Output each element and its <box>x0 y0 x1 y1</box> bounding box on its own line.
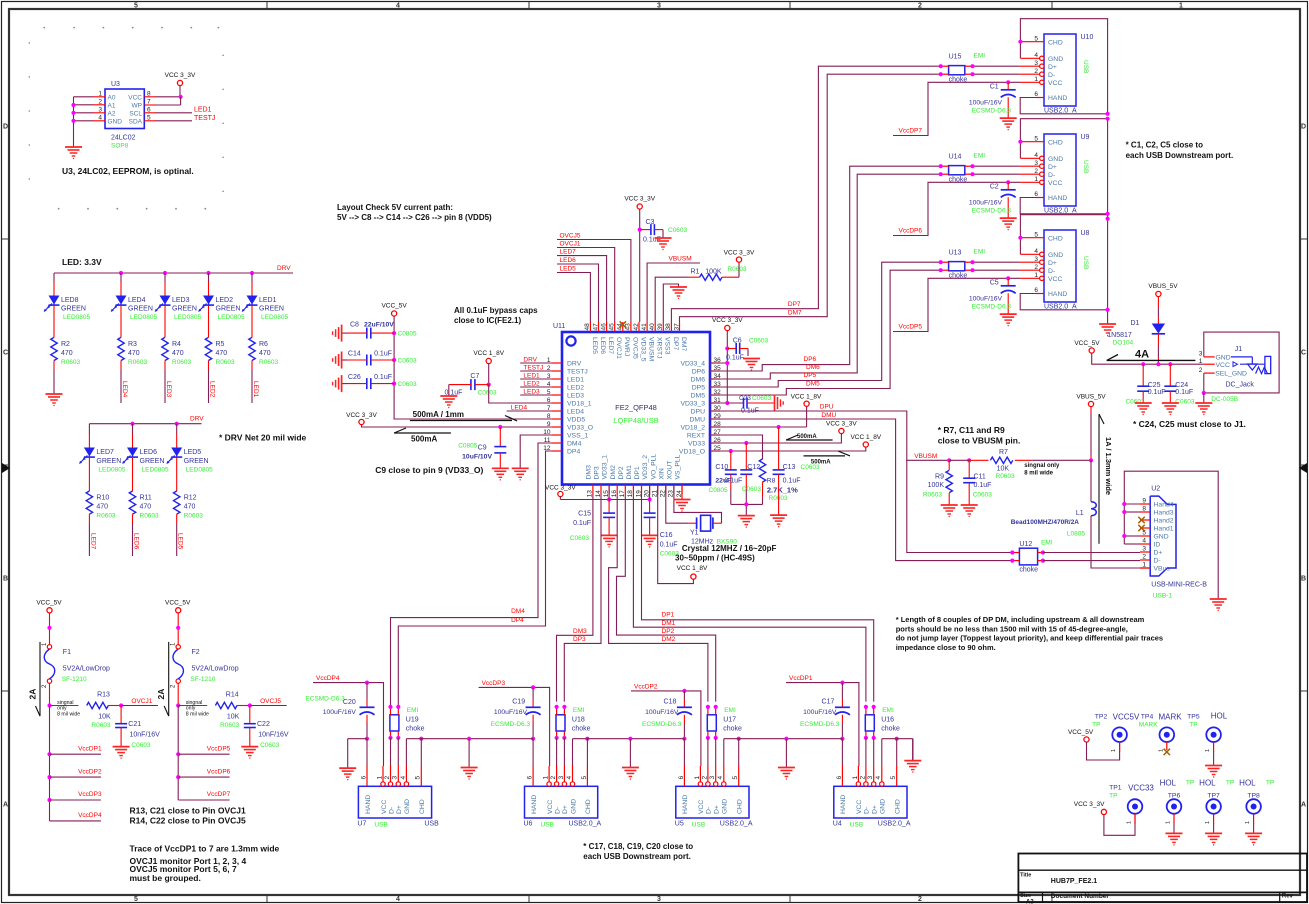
svg-text:ECSMD-D6.3: ECSMD-D6.3 <box>972 208 1012 215</box>
svg-text:C24: C24 <box>1175 382 1188 389</box>
svg-text:C0805: C0805 <box>398 331 418 338</box>
wire pin 40 XRSTJ to R1 <box>655 277 688 322</box>
wire VCC_3_3V to pin 26 VD33 <box>710 434 841 443</box>
wire U6 D-/D+ to port <box>556 738 558 766</box>
svg-text:1: 1 <box>1205 749 1211 752</box>
junction dot bottom rail <box>744 502 748 506</box>
svg-text:HOL: HOL <box>1199 778 1216 787</box>
svg-text:LED6: LED6 <box>133 533 140 550</box>
svg-text:DM2: DM2 <box>610 465 617 480</box>
svg-text:4: 4 <box>717 776 724 780</box>
svg-text:R4: R4 <box>172 341 181 348</box>
svg-text:LED2: LED2 <box>209 381 216 398</box>
wire below R2 <box>53 361 55 371</box>
svg-text:10K: 10K <box>227 714 240 721</box>
wire U12 to U2 D+/D- <box>1043 552 1140 554</box>
svg-text:DM6: DM6 <box>691 377 706 384</box>
svg-text:100uF/16V: 100uF/16V <box>803 709 837 716</box>
wire VccDP rail (U6) <box>479 687 550 766</box>
wire LED to R11 <box>132 457 134 491</box>
wire below R3 <box>120 361 122 371</box>
svg-text:C22: C22 <box>257 721 270 728</box>
svg-text:ECSMD-D6.3: ECSMD-D6.3 <box>642 721 682 728</box>
svg-text:CHD: CHD <box>895 799 902 814</box>
svg-text:WP: WP <box>132 102 142 109</box>
svg-text:U7: U7 <box>357 820 366 827</box>
svg-text:VCC 1_8V: VCC 1_8V <box>473 350 504 357</box>
wire U8 CHD to top rail <box>1020 237 1044 239</box>
svg-text:OVCJ5: OVCJ5 <box>560 233 581 240</box>
svg-text:D-: D- <box>1154 558 1161 565</box>
svg-text:TESTJ: TESTJ <box>567 369 588 376</box>
svg-text:4: 4 <box>566 776 573 780</box>
wire U8 D+ to choke <box>1040 260 1044 264</box>
ground (C16) <box>641 534 658 536</box>
svg-text:100K: 100K <box>705 269 722 276</box>
svg-text:USB: USB <box>692 821 705 828</box>
wire U4 HAND to rail <box>841 739 843 766</box>
svg-text:470: 470 <box>61 350 73 357</box>
wire U9 D+ to choke <box>1040 164 1044 168</box>
svg-text:F2: F2 <box>192 649 200 656</box>
wire DM7 (pin 37 to U15) <box>680 74 941 322</box>
svg-text:U5: U5 <box>675 820 684 827</box>
svg-text:VBUSM: VBUSM <box>648 337 655 362</box>
svg-text:VBUS_5V: VBUS_5V <box>1148 283 1178 290</box>
wire DP7 (pin 38 to U15) <box>671 66 940 322</box>
svg-text:C0603: C0603 <box>478 390 498 397</box>
wire below R10 <box>88 514 90 524</box>
svg-text:VCC 3_3V: VCC 3_3V <box>545 484 576 491</box>
svg-text:R0603: R0603 <box>220 722 240 729</box>
svg-text:C0603: C0603 <box>398 358 418 365</box>
svg-text:10uF/10V: 10uF/10V <box>462 454 492 461</box>
svg-text:HOL: HOL <box>1211 712 1228 721</box>
svg-text:2: 2 <box>918 3 922 10</box>
svg-text:TP2: TP2 <box>1095 714 1108 721</box>
wire VccDP4 stub <box>50 820 101 822</box>
junction dot C20 top <box>365 681 369 685</box>
resistor R13 10K <box>87 702 109 708</box>
svg-text:C16: C16 <box>660 532 673 539</box>
svg-text:LED0805: LED0805 <box>261 314 288 321</box>
svg-text:D+: D+ <box>1048 164 1057 171</box>
wire LED to R5 <box>208 305 210 337</box>
ground (TP6) <box>1166 832 1183 834</box>
svg-text:U3, 24LC02, EEPROM, is optinal: U3, 24LC02, EEPROM, is optinal. <box>62 166 194 176</box>
capacitor C19 100uF/16V <box>532 687 534 699</box>
capacitor C10 22uF <box>730 451 732 470</box>
svg-text:ECSMD-D6.3: ECSMD-D6.3 <box>972 304 1012 311</box>
svg-text:470: 470 <box>96 504 108 511</box>
svg-text:1A / 1.3mm wide: 1A / 1.3mm wide <box>1104 437 1113 495</box>
svg-text:GREEN: GREEN <box>172 306 197 313</box>
svg-text:* C24, C25 must close to J1.: * C24, C25 must close to J1. <box>1133 419 1246 429</box>
svg-text:Hand4: Hand4 <box>1154 502 1174 509</box>
svg-text:U8: U8 <box>1081 230 1090 237</box>
svg-text:VBUSM: VBUSM <box>669 256 692 263</box>
svg-text:C13: C13 <box>783 464 796 471</box>
ground (U2) <box>1210 598 1227 600</box>
junction dot C17 bottom / HAND <box>840 737 844 741</box>
svg-text:VCC 3_3V: VCC 3_3V <box>1074 801 1105 808</box>
svg-text:DM3: DM3 <box>586 465 593 480</box>
svg-text:4: 4 <box>1142 538 1146 545</box>
svg-text:C25: C25 <box>1148 382 1161 389</box>
resistor R12 470 <box>174 491 180 514</box>
svg-text:LED7: LED7 <box>96 449 114 456</box>
svg-text:LED7: LED7 <box>607 337 614 354</box>
svg-text:L1: L1 <box>1076 510 1084 517</box>
svg-text:D-: D- <box>554 807 561 814</box>
wire VCC_3_3V to TP1 <box>1104 814 1135 835</box>
svg-text:R7: R7 <box>999 449 1008 456</box>
svg-text:impedance close to 90 ohm.: impedance close to 90 ohm. <box>896 643 996 652</box>
svg-text:CHD: CHD <box>1048 139 1063 146</box>
capacitor C7 0.1uF <box>470 379 472 390</box>
svg-text:R0603: R0603 <box>96 513 116 520</box>
capacitor C18 100uF/16V <box>683 691 685 699</box>
IC U11 FE2_QFP48 <box>562 332 710 485</box>
svg-text:HOL: HOL <box>1160 778 1177 787</box>
svg-text:D+: D+ <box>1154 550 1163 557</box>
svg-text:100uF/16V: 100uF/16V <box>645 709 679 716</box>
wire below R6 <box>251 361 253 371</box>
ground (C24) <box>1162 402 1179 404</box>
junction dots C15/C16 rail <box>607 497 611 501</box>
svg-text:LED6: LED6 <box>140 449 158 456</box>
svg-text:R1: R1 <box>691 269 700 276</box>
resistor R14 10K <box>215 702 237 708</box>
wire U8 GND pin <box>1040 252 1044 256</box>
svg-text:VCC 3_3V: VCC 3_3V <box>826 420 857 427</box>
svg-text:FE2_QFP48: FE2_QFP48 <box>615 403 657 412</box>
svg-text:A1: A1 <box>108 102 116 109</box>
svg-text:OVCJ5: OVCJ5 <box>631 337 638 359</box>
junction dot C18 top <box>682 689 686 693</box>
svg-text:F1: F1 <box>63 649 71 656</box>
svg-text:C19: C19 <box>512 699 525 706</box>
svg-text:C9 close to pin 9 (VD33_O): C9 close to pin 9 (VD33_O) <box>375 465 483 475</box>
svg-text:XIN: XIN <box>658 468 665 479</box>
svg-text:5V2A/LowDrop: 5V2A/LowDrop <box>192 666 239 673</box>
svg-text:* R7, C11 and R9: * R7, C11 and R9 <box>938 425 1005 435</box>
svg-text:LED3: LED3 <box>523 389 540 396</box>
svg-text:TP4: TP4 <box>1141 714 1154 721</box>
svg-text:470: 470 <box>259 350 271 357</box>
svg-text:1: 1 <box>852 776 859 780</box>
junction dots VCC_3_3V vertical <box>725 346 729 350</box>
wire U7 D-/D+ to port <box>390 738 392 766</box>
svg-text:D+: D+ <box>396 805 403 814</box>
capacitor C9 10uF/10V <box>499 427 501 447</box>
svg-text:1N5817: 1N5817 <box>1107 332 1132 339</box>
junction dot VccDP2 <box>47 775 51 779</box>
svg-text:DP5: DP5 <box>692 385 705 392</box>
svg-text:DP1: DP1 <box>634 466 641 479</box>
svg-text:D-: D- <box>1048 172 1055 179</box>
svg-text:2.7K_1%: 2.7K_1% <box>767 485 798 494</box>
svg-text:2: 2 <box>384 776 391 780</box>
svg-text:5: 5 <box>732 776 739 780</box>
ground (TP7) <box>1205 832 1222 834</box>
junction dots VBUSM <box>947 458 951 462</box>
svg-text:1: 1 <box>694 776 701 780</box>
svg-text:VD33_5: VD33_5 <box>639 337 646 362</box>
svg-text:100K: 100K <box>928 482 945 489</box>
svg-text:EMI: EMI <box>974 249 986 256</box>
wire DP2 (pin 17 to U17) <box>617 495 716 702</box>
svg-text:500mA: 500mA <box>797 434 817 440</box>
svg-text:U9: U9 <box>1081 134 1090 141</box>
svg-text:GND: GND <box>1048 252 1063 259</box>
svg-text:VDD5: VDD5 <box>567 417 585 424</box>
svg-text:R14, C22 close to Pin OVCJ5: R14, C22 close to Pin OVCJ5 <box>130 816 246 826</box>
svg-text:U19: U19 <box>406 717 419 724</box>
svg-text:TP: TP <box>1092 722 1100 729</box>
svg-text:6: 6 <box>527 776 534 780</box>
svg-text:0.1uF: 0.1uF <box>724 477 742 484</box>
wire U7 GND to rail <box>405 739 407 766</box>
inductor L1 Bead100MHZ/470R/2A <box>1091 502 1096 516</box>
svg-text:LED4: LED4 <box>511 405 528 412</box>
svg-text:EMI: EMI <box>407 707 419 714</box>
wire U9 VCC / VccDP6 <box>1040 180 1044 184</box>
svg-text:2: 2 <box>1142 554 1146 561</box>
svg-text:DPU: DPU <box>820 404 834 411</box>
svg-text:LED7: LED7 <box>560 249 577 256</box>
svg-text:5: 5 <box>134 896 138 903</box>
svg-text:GREEN: GREEN <box>184 458 209 465</box>
LED LED6 <box>132 424 134 434</box>
wire VccDP feeder (F1) <box>49 706 51 821</box>
svg-text:DPU: DPU <box>691 409 705 416</box>
svg-text:470: 470 <box>184 504 196 511</box>
USB port U5 <box>676 786 749 818</box>
svg-text:Rev: Rev <box>1282 894 1294 900</box>
svg-text:VCC: VCC <box>1048 276 1062 283</box>
U11 bottom pins 13-24 (stubs, numbers, names) <box>592 485 594 495</box>
wire DM6 (pin 34 to U14) <box>710 174 941 379</box>
svg-text:VD33_2: VD33_2 <box>642 455 649 480</box>
svg-text:TP: TP <box>1186 780 1194 787</box>
svg-text:A: A <box>1301 802 1306 809</box>
svg-text:TESTJ: TESTJ <box>194 115 215 122</box>
svg-text:3: 3 <box>1142 546 1146 553</box>
wire U9 CHD to top rail <box>1020 141 1044 143</box>
svg-text:5: 5 <box>134 3 138 10</box>
wire U9 GND pin <box>1040 156 1044 160</box>
wire VccDP rail (U7) <box>313 683 384 766</box>
wire U3 SCL with net label LED1 <box>144 112 155 114</box>
ground (C25) <box>1135 402 1152 404</box>
svg-text:C2: C2 <box>990 184 999 191</box>
wire pin 20 VD33_2 down <box>649 485 651 500</box>
crystal Y1 12MHz <box>696 517 698 529</box>
wire DRV rail (LED row 2) <box>89 423 201 425</box>
svg-text:VD18_2: VD18_2 <box>680 425 705 432</box>
svg-text:U12: U12 <box>1019 541 1032 548</box>
wire DMU (pin 29 to U12) <box>710 419 1012 561</box>
svg-text:LED2: LED2 <box>216 297 234 304</box>
wire pin 10 VSS_1 to ground <box>520 435 552 468</box>
ground (C12 bottom) <box>738 515 755 517</box>
svg-text:CHD: CHD <box>1048 235 1063 242</box>
svg-text:USB: USB <box>374 821 387 828</box>
wire pin 27 REXT to R8 <box>710 435 763 459</box>
svg-text:VSS_1: VSS_1 <box>567 433 588 440</box>
LED LED1 <box>251 273 253 282</box>
U11 right pins 36-25 (stubs, numbers, names) <box>710 362 720 364</box>
svg-text:VD33_4: VD33_4 <box>680 361 705 368</box>
wire LED to R2 <box>53 305 55 337</box>
svg-text:TESTJ: TESTJ <box>523 365 543 372</box>
svg-text:0.1uF: 0.1uF <box>1148 389 1166 396</box>
junction dots VCC_5V rail <box>1141 362 1145 366</box>
svg-text:LED5: LED5 <box>591 337 598 354</box>
svg-text:LED1: LED1 <box>523 373 540 380</box>
svg-text:VCC_5V: VCC_5V <box>1074 340 1100 347</box>
svg-text:8 mil wide: 8 mil wide <box>57 711 80 717</box>
svg-text:DP4: DP4 <box>567 449 580 456</box>
svg-text:1: 1 <box>1245 821 1251 824</box>
svg-text:DP3: DP3 <box>594 466 601 479</box>
svg-text:GREEN: GREEN <box>96 458 121 465</box>
wire DP3 (pin 14 to U18) <box>564 495 601 702</box>
svg-text:do not jump layer (Toppest lay: do not jump layer (Toppest layout priori… <box>896 634 1163 643</box>
capacitor C12 0.1uF <box>745 443 747 470</box>
svg-text:DM3: DM3 <box>573 628 587 635</box>
junction dot C9 <box>498 425 502 429</box>
ground (C7) <box>440 395 457 397</box>
svg-text:singnal only: singnal only <box>1024 463 1060 469</box>
svg-text:USB-1: USB-1 <box>1153 593 1173 600</box>
svg-text:LED3: LED3 <box>165 381 172 398</box>
USB port U10 <box>1044 34 1076 106</box>
svg-text:40: 40 <box>649 323 656 331</box>
wire R7 to VBUS_5V line <box>1015 459 1033 461</box>
wire DM3 (pin 13 to U18) <box>557 495 593 702</box>
svg-text:39: 39 <box>657 323 664 331</box>
svg-text:C15: C15 <box>578 511 591 518</box>
svg-text:22uF/10V: 22uF/10V <box>364 322 394 329</box>
svg-text:38: 38 <box>665 323 672 331</box>
svg-text:GND: GND <box>880 799 887 814</box>
svg-text:USB-MINI-REC-B: USB-MINI-REC-B <box>1151 581 1207 588</box>
ground (C22) <box>241 746 258 748</box>
U6 pin stubs <box>532 766 534 786</box>
wire VCC_1_8V to C7 node <box>488 364 490 385</box>
svg-text:DP3: DP3 <box>573 636 586 643</box>
svg-text:SF-1210: SF-1210 <box>190 676 215 683</box>
wire U5 HAND to rail <box>683 739 685 766</box>
capacitor C25 0.1uF <box>1142 364 1144 386</box>
svg-text:B: B <box>1301 576 1306 583</box>
svg-text:R0603: R0603 <box>91 722 111 729</box>
svg-text:LED8: LED8 <box>61 297 79 304</box>
svg-text:470: 470 <box>172 350 184 357</box>
svg-text:D1: D1 <box>1130 320 1139 327</box>
USB port U7 <box>358 786 431 818</box>
svg-text:DM4: DM4 <box>567 441 582 448</box>
svg-text:GREEN: GREEN <box>140 458 165 465</box>
svg-text:D: D <box>3 124 8 131</box>
svg-text:USB: USB <box>1082 256 1089 269</box>
svg-text:choke: choke <box>406 726 425 733</box>
wire below R12 <box>176 514 178 524</box>
wire rail right end to ground <box>912 739 914 761</box>
svg-text:DM5: DM5 <box>691 393 706 400</box>
svg-text:U13: U13 <box>949 250 962 257</box>
svg-text:C3: C3 <box>646 219 655 226</box>
svg-text:8: 8 <box>1142 506 1146 513</box>
capacitor C5 100uF/16V <box>1007 278 1009 286</box>
svg-text:VD33_3: VD33_3 <box>680 401 705 408</box>
svg-text:DC-005B: DC-005B <box>1211 396 1238 403</box>
svg-text:DO104: DO104 <box>1113 339 1134 346</box>
svg-text:VccDP6: VccDP6 <box>207 768 231 775</box>
resistor R11 470 <box>129 491 135 514</box>
svg-text:DP2: DP2 <box>662 628 675 635</box>
svg-text:ECSMD-D6.3: ECSMD-D6.3 <box>491 721 531 728</box>
svg-text:B: B <box>3 576 8 583</box>
wire VCC_1_8V to pin 25 VD18_O <box>710 447 866 451</box>
wire DP5 (pin 33 to U13) <box>710 262 941 387</box>
svg-text:Trace of VccDP1 to 7 are 1.3m: Trace of VccDP1 to 7 are 1.3mm wide <box>130 844 280 854</box>
resistor R2 470 <box>51 337 57 360</box>
svg-text:VCC 1_8V: VCC 1_8V <box>850 434 881 441</box>
svg-text:VccDP1: VccDP1 <box>789 675 813 682</box>
wire U10 VCC / VccDP7 <box>1040 80 1044 84</box>
junction dot U3 pin8 <box>179 95 183 99</box>
wire U10 HAND to bottom rail <box>1020 98 1107 114</box>
wire VBUS_5V to D1 <box>1157 297 1159 308</box>
svg-text:ECSMD-D6.3: ECSMD-D6.3 <box>800 721 840 728</box>
svg-text:VccDP5: VccDP5 <box>899 324 923 331</box>
svg-text:LED0805: LED0805 <box>130 314 157 321</box>
wire U10 CHD to top rail <box>1020 41 1044 43</box>
fuse F1 5V2A/LowDrop <box>47 645 51 649</box>
choke U16 (EMI) <box>865 715 874 731</box>
svg-text:VCC 1_8V: VCC 1_8V <box>791 393 822 400</box>
svg-text:5V --> C8 --> C14 --> C26 -->: 5V --> C8 --> C14 --> C26 --> pin 8 (VDD… <box>337 213 492 222</box>
choke U14 (EMI) <box>949 166 965 175</box>
svg-text:DM7: DM7 <box>680 337 687 352</box>
svg-text:* C17, C18, C19, C20 close to: * C17, C18, C19, C20 close to <box>583 842 693 851</box>
ground (TP8) <box>1245 832 1262 834</box>
svg-text:SOP8: SOP8 <box>111 143 129 150</box>
svg-text:D-: D- <box>864 807 871 814</box>
svg-text:GND: GND <box>108 118 123 125</box>
svg-text:GND: GND <box>722 799 729 814</box>
wire VccDP1 stub <box>50 753 101 755</box>
svg-text:DC_Jack: DC_Jack <box>1226 381 1255 388</box>
svg-text:OVCJ1: OVCJ1 <box>131 698 152 705</box>
svg-text:DRV: DRV <box>277 265 291 272</box>
junction dot C19 top <box>531 685 535 689</box>
wire pin 24 VS_PLL to ground <box>681 485 683 500</box>
svg-text:U4: U4 <box>833 820 842 827</box>
svg-text:VCC: VCC <box>856 800 863 814</box>
svg-text:choke: choke <box>881 726 900 733</box>
svg-text:1: 1 <box>1179 3 1183 10</box>
ground (U7 left) <box>339 767 356 769</box>
svg-text:10nF/16V: 10nF/16V <box>130 732 161 739</box>
svg-text:DP6: DP6 <box>692 369 705 376</box>
svg-text:DM4: DM4 <box>511 608 525 615</box>
svg-text:VCC_5V: VCC_5V <box>36 600 62 607</box>
svg-text:EMI: EMI <box>573 707 585 714</box>
